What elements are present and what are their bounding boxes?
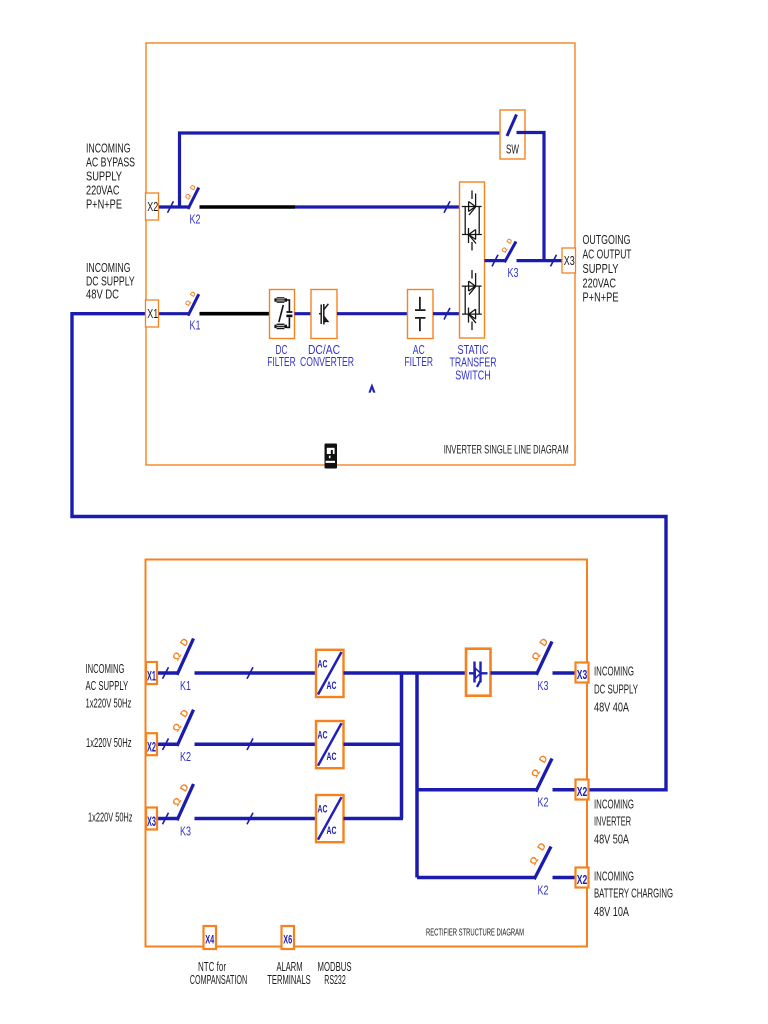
inverter diagram frame bbox=[146, 43, 575, 465]
svg-text:AC SUPPLY: AC SUPPLY bbox=[86, 678, 129, 693]
label: alarm terminals bbox=[267, 960, 311, 987]
svg-text:X2: X2 bbox=[147, 739, 156, 755]
svg-text:X3: X3 bbox=[564, 253, 575, 268]
svg-text:K2: K2 bbox=[538, 794, 549, 809]
svg-text:X1: X1 bbox=[147, 306, 158, 321]
K2 actuator bbox=[184, 184, 198, 201]
contactor K2 blade (bottom right) bbox=[534, 847, 551, 880]
K1 actuator bbox=[184, 291, 198, 308]
svg-text:X3: X3 bbox=[577, 667, 588, 682]
svg-text:NTC for: NTC for bbox=[198, 960, 226, 974]
svg-text:AC: AC bbox=[318, 659, 328, 671]
slash bbox=[168, 201, 174, 213]
svg-text:CONVERTER: CONVERTER bbox=[300, 354, 354, 369]
blue chevron marker bbox=[368, 383, 375, 392]
terminal X2 (mid right) bbox=[576, 780, 589, 800]
slash bbox=[551, 255, 557, 267]
svg-text:AC: AC bbox=[327, 751, 337, 763]
svg-text:AC BYPASS: AC BYPASS bbox=[86, 154, 135, 169]
svg-text:RS232: RS232 bbox=[324, 973, 346, 987]
label: incoming AC supply row1 bbox=[86, 661, 133, 824]
svg-text:220VAC: 220VAC bbox=[86, 182, 120, 197]
row2: wire X2-K2 bbox=[157, 742, 177, 746]
svg-text:X6: X6 bbox=[283, 933, 292, 947]
wire: X2 row to K2 bbox=[159, 205, 189, 208]
svg-text:INCOMING: INCOMING bbox=[86, 140, 131, 155]
wire bottom branch to K2 bbox=[417, 876, 534, 880]
svg-text:48V 40A: 48V 40A bbox=[594, 700, 629, 715]
svg-text:K3: K3 bbox=[180, 824, 191, 839]
svg-text:INCOMING: INCOMING bbox=[594, 797, 634, 812]
contactor K1 blade (rectifier) bbox=[177, 639, 194, 675]
AC/AC converter row2 bbox=[316, 721, 344, 768]
thyristor pair upper bbox=[462, 191, 482, 251]
svg-text:1x220V 50Hz: 1x220V 50Hz bbox=[88, 810, 133, 825]
terminal X3 (right) bbox=[576, 663, 589, 683]
terminal X3 (rectifier) bbox=[146, 808, 157, 830]
AC/AC converter row3 bbox=[316, 795, 344, 842]
svg-text:1x220V 50Hz: 1x220V 50Hz bbox=[86, 735, 132, 750]
svg-text:BATTERY CHARGING: BATTERY CHARGING bbox=[594, 885, 673, 900]
wire: main DC loop X1 to rectifier X2 bbox=[72, 314, 666, 790]
wire: SW output down to output bus bbox=[517, 133, 545, 261]
thyristor pair lower bbox=[462, 270, 482, 330]
terminal X4 (NTC) bbox=[204, 926, 217, 949]
slash bbox=[444, 201, 450, 213]
wire K3 to X3 right bbox=[553, 671, 576, 675]
svg-text:48V 10A: 48V 10A bbox=[594, 904, 629, 919]
svg-text:ALARM: ALARM bbox=[277, 960, 303, 974]
wire row2 to bus bbox=[344, 742, 402, 746]
label: incoming AC bypass supply bbox=[86, 140, 135, 211]
svg-text:K3: K3 bbox=[508, 265, 519, 280]
svg-text:X4: X4 bbox=[205, 933, 214, 947]
wire row1 to diode block bbox=[344, 671, 467, 675]
wire row3 to bus bbox=[344, 817, 404, 821]
wire DC bus vertical 1 bbox=[400, 673, 404, 819]
label: incoming DC supply (right) bbox=[594, 663, 638, 714]
svg-text:K2: K2 bbox=[180, 749, 191, 764]
label: incoming battery charging bbox=[594, 869, 673, 919]
svg-text:INCOMING: INCOMING bbox=[594, 663, 634, 678]
svg-text:INCOMING: INCOMING bbox=[594, 869, 634, 884]
wire: X1 row to K1 bbox=[159, 312, 189, 315]
diode block D1 bbox=[466, 649, 491, 696]
wire bbox=[337, 312, 408, 315]
wire: STS output bbox=[485, 259, 505, 262]
svg-text:X1: X1 bbox=[147, 668, 156, 684]
svg-text:P+N+PE: P+N+PE bbox=[86, 196, 122, 211]
svg-text:COMPANSATION: COMPANSATION bbox=[190, 973, 248, 987]
label: incoming DC supply bbox=[86, 260, 135, 302]
svg-text:SUPPLY: SUPPLY bbox=[583, 261, 619, 276]
svg-text:FILTER: FILTER bbox=[404, 354, 433, 369]
svg-text:RECTIFIER STRUCTURE DIAGRAM: RECTIFIER STRUCTURE DIAGRAM bbox=[426, 927, 524, 939]
svg-text:AC: AC bbox=[318, 730, 328, 742]
wire: bypass branch up to SW bbox=[180, 133, 508, 207]
DC filter U1 bbox=[270, 290, 295, 339]
svg-text:48V DC: 48V DC bbox=[86, 287, 119, 302]
svg-text:K1: K1 bbox=[180, 678, 191, 693]
contactor K3 blade (right) bbox=[536, 642, 552, 675]
row3: wire X3-K3 bbox=[157, 817, 177, 821]
svg-text:INCOMING: INCOMING bbox=[86, 661, 125, 676]
contactor K1 blade bbox=[188, 294, 199, 316]
svg-text:SW: SW bbox=[506, 142, 519, 157]
wire K2 to X2 (mid) bbox=[553, 788, 576, 792]
svg-text:AC: AC bbox=[318, 804, 328, 816]
svg-text:SWITCH: SWITCH bbox=[455, 367, 491, 382]
wire: K3 to X3 bbox=[517, 259, 563, 262]
row1 wire to AC/AC bbox=[195, 671, 317, 675]
wire DC bus vertical 2 bbox=[415, 673, 419, 878]
svg-text:X3: X3 bbox=[147, 813, 156, 829]
terminal X2 (rectifier) bbox=[146, 733, 157, 755]
static transfer switch U4 bbox=[460, 182, 485, 338]
terminal X6 (alarm) bbox=[282, 926, 295, 949]
row1: wire X1-K1 bbox=[157, 671, 177, 675]
svg-text:AC: AC bbox=[327, 825, 337, 837]
terminal X1 (rectifier) bbox=[146, 662, 157, 684]
svg-text:INVERTER: INVERTER bbox=[594, 814, 631, 829]
svg-text:1x220V 50Hz: 1x220V 50Hz bbox=[86, 695, 132, 710]
svg-text:X2: X2 bbox=[577, 784, 588, 799]
svg-text:K1: K1 bbox=[190, 318, 201, 333]
AC filter U3 bbox=[408, 290, 434, 339]
svg-text:MODBUS: MODBUS bbox=[318, 960, 352, 974]
terminal X2 (bottom right) bbox=[576, 868, 589, 888]
AC/AC converter row1 bbox=[316, 650, 344, 697]
svg-text:X2: X2 bbox=[147, 199, 158, 214]
svg-text:K2: K2 bbox=[538, 882, 549, 897]
rectifier diagram frame bbox=[146, 560, 588, 947]
label: NTC for compansation bbox=[190, 960, 248, 987]
wire bbox=[433, 312, 460, 315]
contactor K2 blade (mid right) bbox=[536, 759, 552, 792]
contactor K3 blade bbox=[505, 242, 517, 263]
wire: K2 row to static switch bbox=[295, 205, 460, 208]
svg-text:SUPPLY: SUPPLY bbox=[86, 168, 122, 183]
svg-text:AC OUTPUT: AC OUTPUT bbox=[583, 247, 632, 262]
terminal X2 bbox=[146, 193, 159, 220]
svg-text:FILTER: FILTER bbox=[267, 354, 296, 369]
contactor K3 blade (rectifier) bbox=[177, 784, 194, 820]
switch SW bbox=[500, 110, 525, 159]
wire mid branch to K2 bbox=[417, 788, 536, 792]
svg-text:X2: X2 bbox=[577, 872, 588, 887]
label: incoming inverter bbox=[594, 797, 634, 847]
terminal X3 bbox=[562, 248, 576, 273]
wire: K2 row black segment bbox=[200, 205, 296, 209]
slash bbox=[444, 308, 450, 320]
connector icon bbox=[325, 444, 338, 469]
svg-text:DC SUPPLY: DC SUPPLY bbox=[594, 682, 638, 697]
svg-text:INVERTER SINGLE LINE DIAGRAM: INVERTER SINGLE LINE DIAGRAM bbox=[444, 443, 569, 457]
contactor K2 blade (rectifier) bbox=[177, 710, 194, 746]
terminal X1 bbox=[146, 300, 159, 327]
wire: K1 row black segment bbox=[200, 312, 270, 316]
svg-text:48V 50A: 48V 50A bbox=[594, 832, 629, 847]
slash bbox=[492, 255, 498, 267]
wire diode to K3 bbox=[491, 671, 537, 675]
K3 actuator bbox=[501, 238, 515, 255]
label: modbus rs232 bbox=[318, 960, 352, 987]
svg-text:P+N+PE: P+N+PE bbox=[583, 289, 619, 304]
wire bbox=[295, 312, 312, 315]
wire K2 to X2 (bottom) bbox=[553, 876, 576, 880]
svg-text:TERMINALS: TERMINALS bbox=[267, 973, 311, 987]
svg-text:K3: K3 bbox=[538, 678, 549, 693]
DC/AC converter U2 bbox=[311, 290, 337, 339]
contactor K2 blade bbox=[188, 188, 199, 210]
label: outgoing AC output supply bbox=[583, 232, 632, 304]
svg-text:K2: K2 bbox=[190, 211, 201, 226]
svg-text:AC: AC bbox=[327, 680, 337, 692]
svg-text:OUTGOING: OUTGOING bbox=[583, 232, 631, 247]
